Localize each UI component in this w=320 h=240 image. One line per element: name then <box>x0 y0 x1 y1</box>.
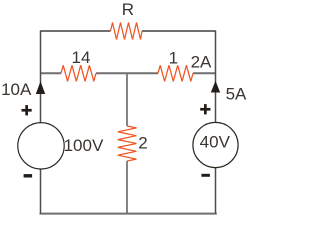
svg-text:2: 2 <box>138 134 147 153</box>
svg-text:40V: 40V <box>200 132 231 151</box>
svg-text:10A: 10A <box>1 80 32 99</box>
svg-text:100V: 100V <box>64 136 104 155</box>
svg-text:R: R <box>122 0 134 19</box>
svg-text:14: 14 <box>72 48 91 67</box>
svg-text:1: 1 <box>169 49 178 68</box>
svg-text:5A: 5A <box>226 85 247 104</box>
svg-text:2A: 2A <box>191 53 212 72</box>
